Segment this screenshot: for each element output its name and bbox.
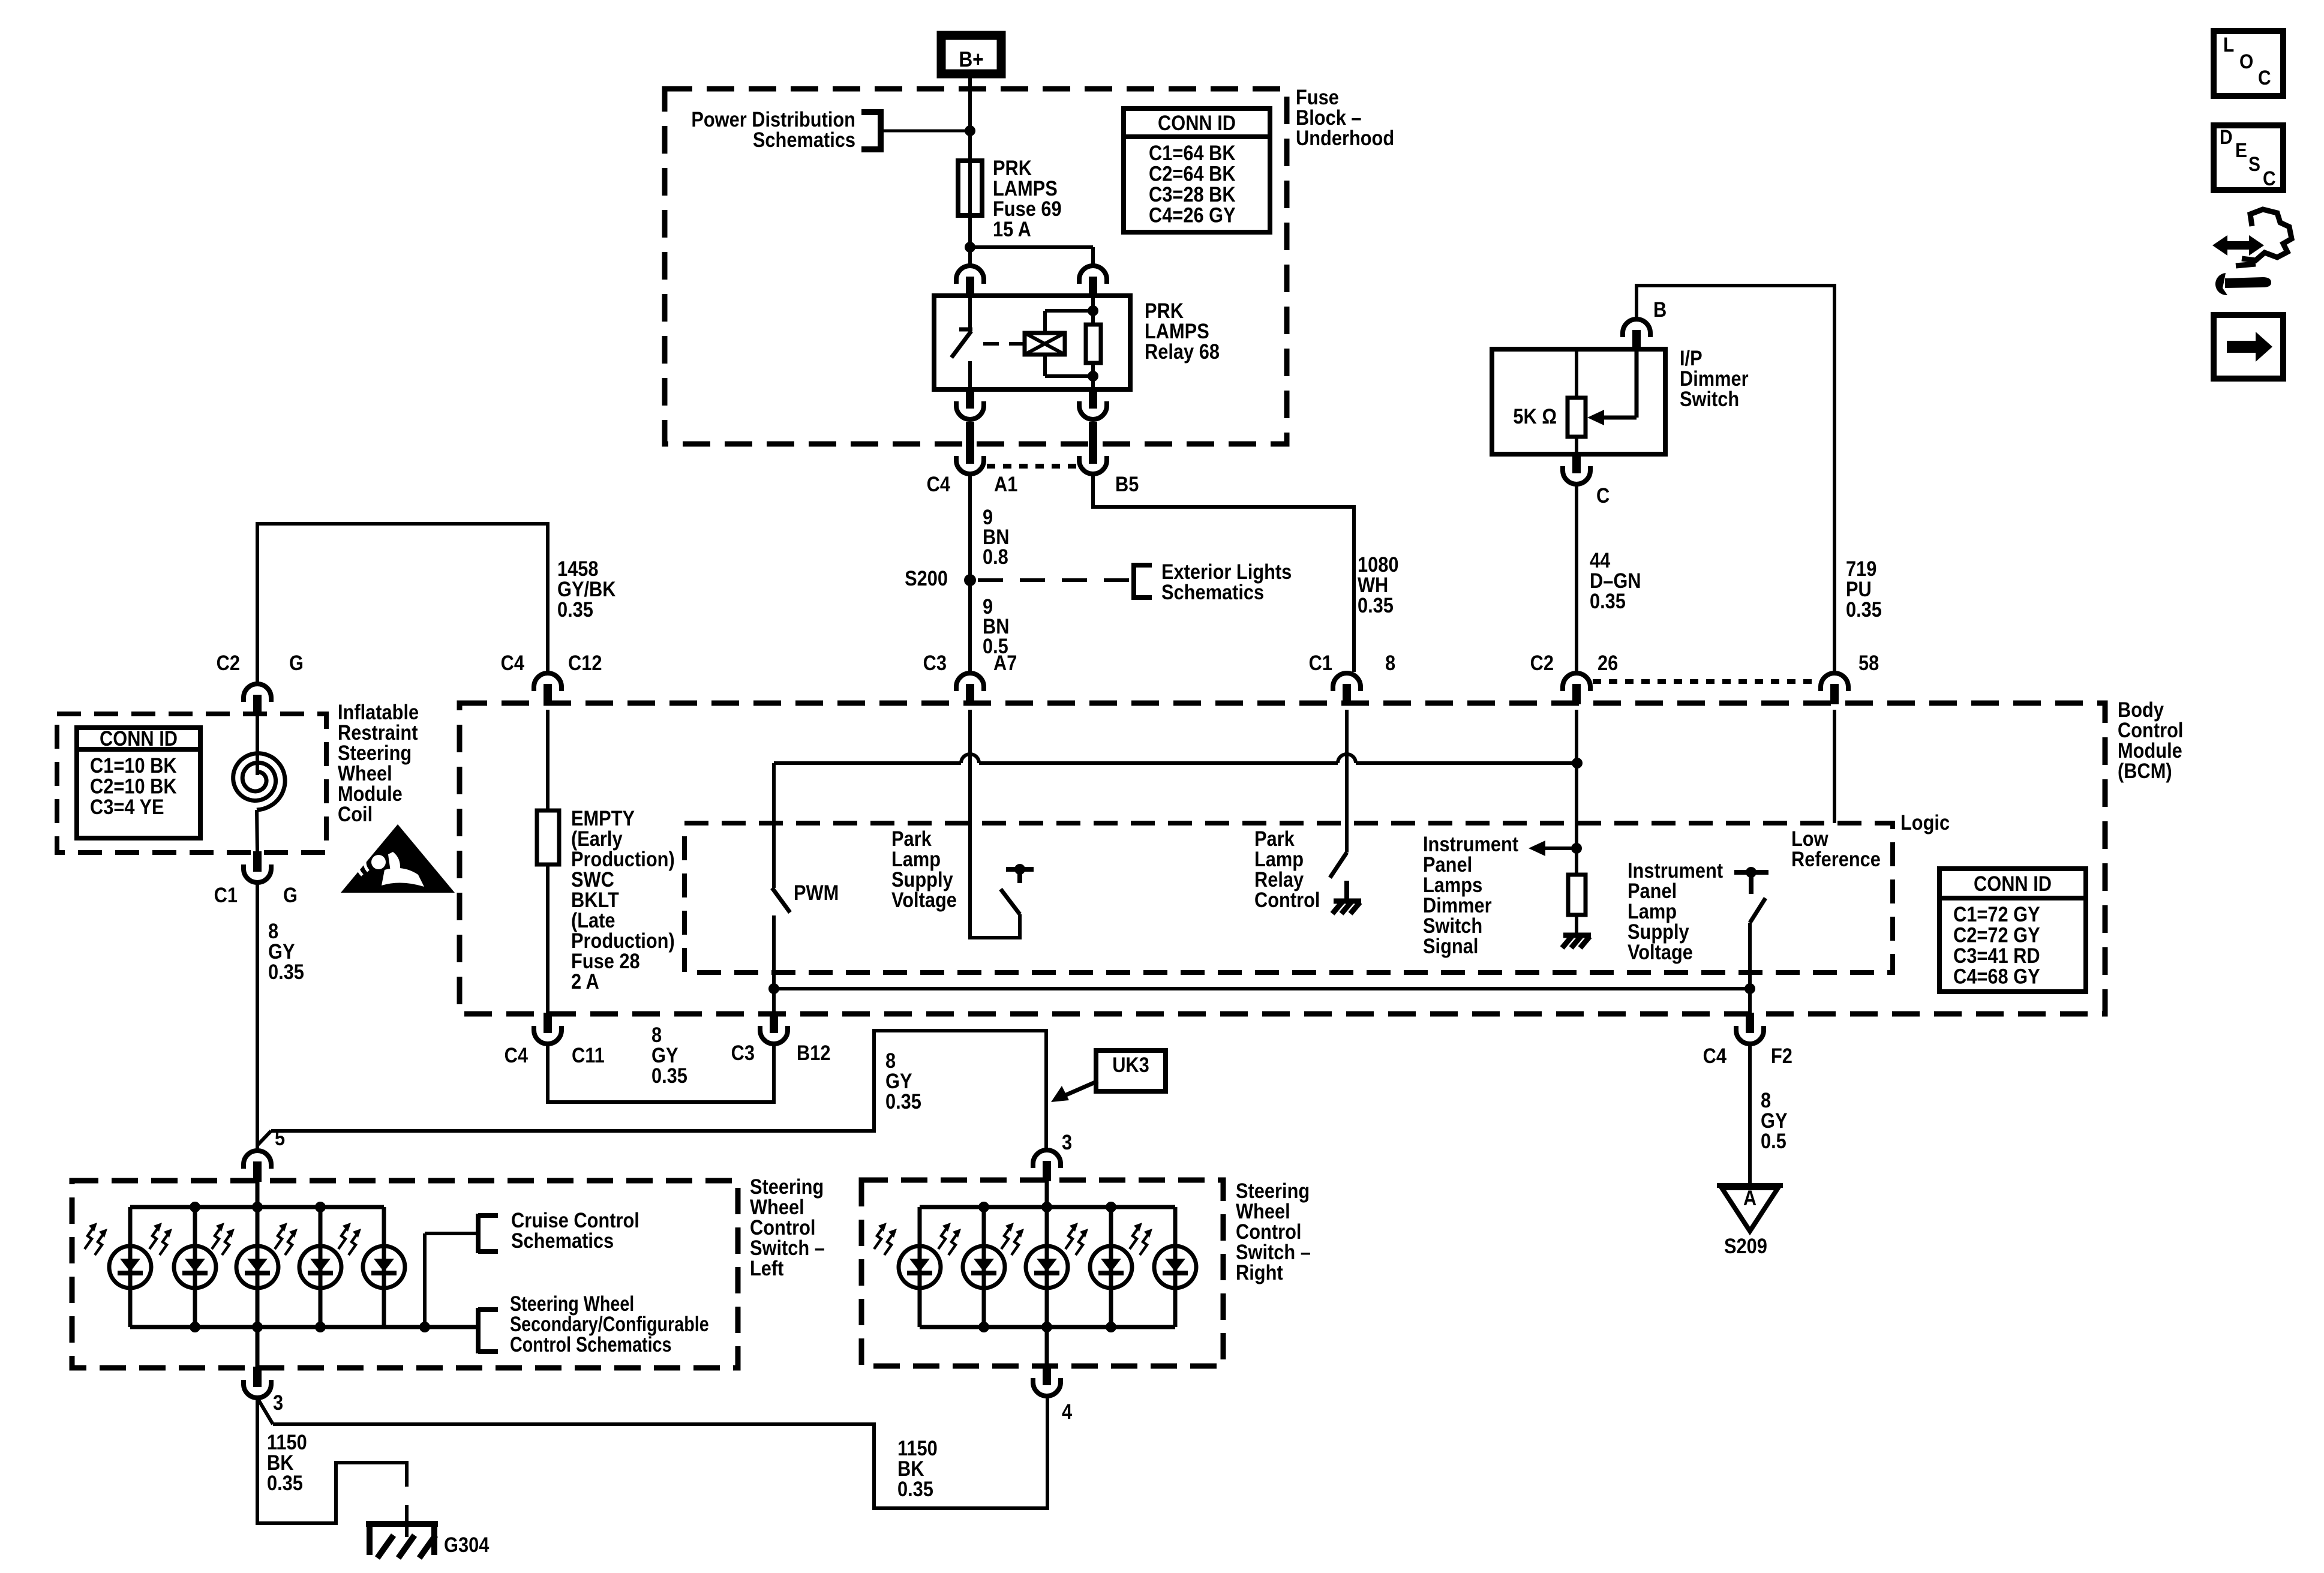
- pin label 26: [1598, 651, 1618, 674]
- label EMPTY SWC BKLT Fuse 28 2A: [571, 806, 675, 993]
- connector C3 A7 BCM: [956, 673, 984, 704]
- svg-text:C4=26 GY: C4=26 GY: [1149, 203, 1236, 227]
- dotted connector tie C2-58: [1593, 679, 1818, 684]
- junction node dimmer arrow: [1571, 843, 1582, 854]
- svg-text:26: 26: [1598, 651, 1618, 674]
- wire fuse 69 to relay switch pin: [968, 247, 972, 266]
- pin label 4: [1062, 1400, 1073, 1423]
- bracket Cruise Control Schematics: [478, 1208, 639, 1253]
- left switch dashed box: [72, 1181, 738, 1368]
- pin label A7: [993, 651, 1017, 674]
- wire bcm internal bus upper: [774, 754, 1577, 763]
- svg-text:G304: G304: [444, 1533, 490, 1556]
- junction nodes left switch buses: [190, 1202, 430, 1332]
- svg-text:8: 8: [1385, 651, 1395, 674]
- svg-text:0.35: 0.35: [651, 1064, 687, 1087]
- ground internal dimmer signal: [1562, 935, 1591, 948]
- svg-text:F2: F2: [1771, 1044, 1792, 1067]
- svg-text:0.35: 0.35: [268, 960, 304, 983]
- svg-text:Left: Left: [750, 1256, 783, 1280]
- label 9 BN 0.8: [983, 505, 1009, 568]
- label Body Control Module BCM: [2118, 698, 2183, 782]
- signal direction arrow: [1529, 840, 1577, 856]
- conn id table coil: [77, 727, 200, 838]
- junction node bus to dimmer signal: [1572, 758, 1583, 769]
- svg-text:B5: B5: [1115, 472, 1139, 496]
- svg-text:B: B: [1653, 298, 1667, 321]
- pin label C11: [572, 1043, 605, 1067]
- label 1150 BK 0.35 right: [897, 1436, 938, 1500]
- pin label C4 c11: [505, 1043, 529, 1067]
- wire fuse 69 to relay coil pin: [970, 247, 1093, 266]
- splice pack S209 triangle: [1717, 1185, 1783, 1231]
- svg-text:C2: C2: [1530, 651, 1554, 674]
- dotted connector tie C4A1-B5: [987, 464, 1077, 469]
- pin label 5: [275, 1126, 285, 1149]
- svg-text:0.5: 0.5: [1761, 1129, 1786, 1152]
- svg-text:L: L: [2223, 33, 2234, 56]
- label Logic: [1900, 810, 1950, 834]
- connector B dimmer switch: [1623, 319, 1650, 350]
- junction node pwm output: [768, 983, 779, 994]
- pin label G coil top: [289, 651, 304, 674]
- svg-text:0.35: 0.35: [1358, 593, 1394, 617]
- svg-text:B12: B12: [797, 1041, 830, 1064]
- svg-text:C2: C2: [217, 651, 240, 674]
- relay coil bottom wire: [1045, 355, 1093, 376]
- pin label C4 f2: [1703, 1044, 1727, 1067]
- wire F2 internal: [1748, 923, 1752, 1014]
- dimmer wiper arrow: [1587, 349, 1637, 425]
- coil inductive spiral: [233, 714, 285, 852]
- bracket Exterior Lights Schematics: [1134, 560, 1292, 604]
- wire 9 BN A1 to S200: [968, 475, 972, 580]
- wire 8 GY 0.5 F2 to S209: [1748, 1045, 1752, 1185]
- pin label C4 c12: [501, 651, 525, 674]
- svg-text:D: D: [2220, 125, 2233, 148]
- relay switch contact: [959, 296, 972, 329]
- UK3 pointer arrow: [1051, 1081, 1098, 1102]
- svg-text:A1: A1: [994, 472, 1017, 496]
- svg-text:G: G: [289, 651, 304, 674]
- svg-text:C: C: [2263, 167, 2276, 190]
- svg-text:Schematics: Schematics: [753, 128, 855, 151]
- body control module dashed box: [460, 703, 2105, 1014]
- ground internal relay control: [1332, 901, 1361, 914]
- wire 1150 BK right switch pin4 to pin3 left: [273, 1398, 1047, 1508]
- pin label 3 left: [273, 1391, 283, 1414]
- wire 9 BN S200 to A7: [968, 580, 972, 672]
- label G304: [444, 1533, 490, 1556]
- svg-text:C4: C4: [927, 472, 951, 496]
- svg-text:C4: C4: [505, 1043, 529, 1067]
- wire bcm internal bus lower: [774, 987, 1750, 990]
- svg-text:5: 5: [275, 1126, 285, 1149]
- relay resistor: [1086, 311, 1101, 376]
- relay PRK LAMPS Relay 68 box: [934, 296, 1130, 389]
- svg-text:E: E: [2235, 139, 2247, 161]
- pin label C2 coil: [217, 651, 240, 674]
- svg-text:C2=64 BK: C2=64 BK: [1149, 162, 1236, 185]
- wire 8 GY C11 to B12: [548, 1045, 774, 1102]
- connector C2 G coil: [244, 684, 271, 715]
- icon LOC box: [2214, 31, 2283, 96]
- svg-text:C1=64 BK: C1=64 BK: [1149, 141, 1236, 164]
- connector C3 B12 BCM: [760, 1013, 788, 1044]
- svg-text:Reference: Reference: [1791, 847, 1881, 870]
- LEDs left switch (5 backlight diodes): [85, 1223, 405, 1288]
- label Fuse Block - Underhood: [1296, 85, 1394, 149]
- bracket Power Distribution Schematics: [691, 107, 881, 152]
- svg-text:58: 58: [1858, 651, 1879, 674]
- label 5K ohm: [1513, 404, 1557, 428]
- label Park Lamp Supply Voltage: [891, 827, 957, 911]
- svg-text:Schematics: Schematics: [511, 1229, 614, 1252]
- pin label B12: [797, 1041, 830, 1064]
- svg-text:C4=68 GY: C4=68 GY: [1953, 965, 2040, 988]
- svg-text:S200: S200: [905, 566, 948, 590]
- label 719 PU 0.35: [1846, 557, 1882, 621]
- LEDs right switch (5 backlight diodes): [874, 1223, 1196, 1288]
- switch park lamp supply blade: [1001, 889, 1020, 914]
- icon DESC box: [2214, 125, 2283, 190]
- svg-text:PWM: PWM: [794, 881, 839, 904]
- dashed wire S200 to exterior lights: [978, 578, 1131, 582]
- svg-text:C: C: [2258, 66, 2271, 89]
- connector C2 26 BCM: [1563, 673, 1590, 704]
- label I/P Dimmer Switch: [1680, 346, 1749, 410]
- label Instrument Panel Lamps Dimmer Switch Signal: [1423, 832, 1518, 957]
- wire 719 PU dimmer B to BCM 58: [1637, 286, 1834, 672]
- label 44 D-GN 0.35: [1590, 548, 1641, 613]
- svg-text:0.35: 0.35: [557, 598, 593, 621]
- icon navigate wrench: [2212, 209, 2292, 295]
- switch park lamp supply fixed contact: [1006, 864, 1034, 883]
- svg-text:CONN ID: CONN ID: [1974, 872, 2052, 895]
- connector C4 F2 BCM: [1736, 1013, 1764, 1044]
- junction nodes right switch buses: [978, 1202, 1116, 1332]
- pin label C3 b12: [731, 1041, 755, 1064]
- wire power distribution tap: [882, 130, 968, 133]
- fuse block - underhood dashed box: [665, 89, 1287, 444]
- svg-text:Underhood: Underhood: [1296, 126, 1394, 149]
- svg-text:Logic: Logic: [1900, 810, 1950, 834]
- svg-text:S: S: [2248, 152, 2260, 175]
- label PRK LAMPS Relay 68: [1145, 299, 1220, 363]
- pin label C1: [1309, 651, 1332, 674]
- bracket Steering Wheel Secondary: [478, 1292, 709, 1356]
- connector pin 4 right switch: [1033, 1365, 1061, 1396]
- label S209: [1724, 1234, 1767, 1257]
- svg-text:C3=41 RD: C3=41 RD: [1953, 944, 2040, 967]
- coil module dashed box: [57, 714, 326, 852]
- option code UK3 box: [1096, 1050, 1166, 1091]
- pin label C1 coil: [214, 883, 238, 906]
- svg-text:B+: B+: [959, 47, 983, 71]
- label 8 GY 0.35 coil: [268, 919, 304, 983]
- pin label C: [1596, 484, 1610, 507]
- wire ground stem segment: [405, 1505, 409, 1537]
- svg-text:(BCM): (BCM): [2118, 759, 2172, 782]
- label 8 GY 0.5: [1761, 1088, 1788, 1152]
- airbag warning triangle: [341, 824, 455, 893]
- svg-text:C4: C4: [501, 651, 525, 674]
- svg-text:G: G: [283, 883, 298, 906]
- connector C4 A1 fuse block: [956, 443, 984, 474]
- wire 1080 WH B5 to BCM C1-8: [1093, 475, 1354, 672]
- svg-text:Control: Control: [1254, 888, 1320, 911]
- ground G304: [366, 1524, 438, 1558]
- wire low reference internal: [1833, 710, 1836, 823]
- svg-text:C: C: [1596, 484, 1610, 507]
- icon forward arrow box: [2214, 315, 2283, 379]
- wire main through left switch: [256, 1182, 260, 1367]
- svg-text:A: A: [1743, 1186, 1756, 1209]
- svg-text:S209: S209: [1724, 1234, 1767, 1257]
- label S200: [905, 566, 948, 590]
- relay switch lower stub: [968, 361, 972, 389]
- connector C1 G coil: [244, 851, 271, 882]
- wire relay control internal: [1345, 710, 1349, 852]
- svg-text:0.35: 0.35: [1590, 589, 1626, 613]
- left switch bus wires: [130, 1207, 476, 1327]
- wire cruise control tap: [425, 1233, 476, 1327]
- label 1458 GY/BK 0.35: [557, 557, 616, 621]
- pin label C2: [1530, 651, 1554, 674]
- svg-text:4: 4: [1062, 1400, 1073, 1423]
- connector C4 C11 BCM: [534, 1013, 562, 1044]
- connector 58 BCM: [1821, 673, 1848, 704]
- switch park lamp relay control blade: [1330, 852, 1347, 878]
- relay node coil-resistor bottom: [1088, 371, 1098, 382]
- wire diagonal out of pin3: [258, 1399, 273, 1424]
- label PRK LAMPS Fuse 69 15 A: [993, 156, 1062, 241]
- pin label 3 right: [1062, 1130, 1072, 1154]
- svg-text:0.35: 0.35: [1846, 598, 1882, 621]
- label Steering Wheel Control Switch Right: [1236, 1179, 1311, 1284]
- svg-text:CONN ID: CONN ID: [1158, 111, 1236, 134]
- svg-text:C4: C4: [1703, 1044, 1727, 1067]
- svg-text:Control Schematics: Control Schematics: [510, 1332, 671, 1356]
- wire resistor to ground: [1575, 915, 1578, 935]
- relay actuation dashed link: [983, 342, 1023, 346]
- svg-text:C1: C1: [214, 883, 238, 906]
- svg-text:15 A: 15 A: [993, 217, 1031, 241]
- relay switch blade: [951, 331, 971, 358]
- svg-text:Right: Right: [1236, 1260, 1283, 1284]
- label Steering Wheel Control Switch Left: [750, 1175, 825, 1280]
- label 8 GY 0.35 c11: [651, 1023, 687, 1087]
- svg-text:C11: C11: [572, 1043, 605, 1067]
- svg-text:C1=72 GY: C1=72 GY: [1953, 902, 2040, 926]
- svg-text:C1: C1: [1309, 651, 1332, 674]
- connector relay switch pin bottom: [956, 388, 984, 464]
- label Low Reference: [1791, 827, 1881, 870]
- splice node S200: [964, 574, 976, 586]
- connector pin 3 right switch: [1033, 1150, 1061, 1181]
- wire 8 GY coil C1G down to switch pin5: [256, 884, 259, 1149]
- pin label G coil bottom: [283, 883, 298, 906]
- svg-text:C12: C12: [568, 651, 602, 674]
- svg-text:C3=4 YE: C3=4 YE: [90, 795, 164, 818]
- right switch bus wires: [920, 1207, 1175, 1327]
- svg-text:C3: C3: [923, 651, 947, 674]
- conn id table BCM: [1939, 869, 2086, 992]
- fuse PRK LAMPS Fuse 69 15A: [958, 161, 982, 247]
- label Inflatable Restraint Steering Wheel Module Coil: [338, 700, 419, 825]
- wire 1458 GY/BK coil C2G to BCM C4C12: [257, 524, 548, 683]
- svg-text:O: O: [2239, 50, 2253, 73]
- svg-text:Voltage: Voltage: [1628, 940, 1693, 963]
- svg-text:Signal: Signal: [1423, 934, 1478, 957]
- switch ip lamp supply fixed contact: [1734, 867, 1768, 894]
- label Instrument Panel Lamp Supply Voltage: [1628, 858, 1723, 963]
- pin label C4: [927, 472, 951, 496]
- svg-text:CONN ID: CONN ID: [100, 727, 178, 750]
- wire 44 D-GN dimmer C to BCM C2-26: [1575, 485, 1578, 672]
- svg-text:C2=10 BK: C2=10 BK: [90, 775, 177, 798]
- svg-text:Schematics: Schematics: [1161, 580, 1264, 604]
- pin label C3: [923, 651, 947, 674]
- switch PWM: [772, 763, 790, 1014]
- pin label 58: [1858, 651, 1879, 674]
- pin label B5: [1115, 472, 1139, 496]
- junction node below fuse 69: [965, 242, 975, 253]
- label 9 BN 0.5: [983, 595, 1009, 658]
- relay coil top wire: [1045, 311, 1093, 333]
- wire main through right switch: [1045, 1181, 1049, 1366]
- ip dimmer switch box: [1492, 349, 1665, 454]
- label PWM: [794, 881, 839, 904]
- wire 8 GY pin5 to pin3: [271, 1031, 1046, 1149]
- pin label A1: [994, 472, 1017, 496]
- svg-text:0.8: 0.8: [983, 545, 1008, 568]
- svg-text:A7: A7: [993, 651, 1017, 674]
- potentiometer 5K dimmer: [1568, 349, 1586, 454]
- resistor dimmer signal: [1568, 875, 1586, 915]
- pin label F2: [1771, 1044, 1792, 1067]
- pin label 8: [1385, 651, 1395, 674]
- relay coil pin wire: [1091, 296, 1095, 389]
- svg-text:C3: C3: [731, 1041, 755, 1064]
- junction node on B+ feed: [965, 125, 975, 136]
- connector C1 8 BCM: [1333, 673, 1361, 704]
- connector pin 5 left switch: [244, 1151, 271, 1182]
- connector relay coil pin top: [1079, 266, 1107, 297]
- relay coil element: [1025, 333, 1065, 355]
- label 8 GY 0.35 uk3: [885, 1049, 921, 1113]
- junction node lamp supply: [1744, 983, 1755, 994]
- svg-text:Switch: Switch: [1680, 387, 1739, 410]
- svg-text:2 A: 2 A: [571, 969, 599, 993]
- fuse SWC BKLT Fuse 28 2A: [537, 710, 559, 1014]
- label 1150 BK 0.35 left: [267, 1430, 307, 1494]
- connector relay coil pin bottom: [1079, 388, 1107, 464]
- svg-text:Coil: Coil: [338, 802, 373, 825]
- svg-text:3: 3: [273, 1391, 283, 1414]
- connector pin 3 left switch: [244, 1367, 271, 1398]
- conn id table fuse block: [1124, 109, 1270, 232]
- svg-text:C1=10 BK: C1=10 BK: [90, 754, 177, 777]
- right switch dashed box: [861, 1180, 1223, 1366]
- wire B+ to fuse 69: [968, 78, 972, 162]
- connector B5 fuse block: [1079, 443, 1107, 474]
- wire A7 internal: [970, 710, 1020, 938]
- svg-text:3: 3: [1062, 1130, 1072, 1154]
- svg-text:0.35: 0.35: [885, 1089, 921, 1113]
- wire dimmer signal internal: [1575, 710, 1578, 875]
- svg-text:C3=28 BK: C3=28 BK: [1149, 182, 1236, 206]
- power symbol B+ box: [941, 35, 1001, 74]
- svg-text:5K Ω: 5K Ω: [1513, 404, 1557, 428]
- connector C4 C12 BCM: [534, 673, 562, 704]
- relay node coil-resistor top: [1088, 305, 1098, 316]
- svg-text:Relay 68: Relay 68: [1145, 340, 1220, 363]
- logic dashed box: [684, 823, 1893, 972]
- label Park Lamp Relay Control: [1254, 827, 1320, 911]
- svg-text:UK3: UK3: [1112, 1053, 1149, 1076]
- svg-text:0.35: 0.35: [897, 1477, 933, 1500]
- switch ip lamp supply blade: [1750, 898, 1765, 923]
- connector C dimmer switch: [1563, 453, 1590, 484]
- svg-text:Voltage: Voltage: [891, 888, 957, 911]
- wire 1150 BK left to G304: [257, 1399, 407, 1523]
- connector relay switch pin top: [956, 266, 984, 297]
- wire diagonal into pin5: [258, 1131, 271, 1145]
- pin label B: [1653, 298, 1667, 321]
- svg-text:0.35: 0.35: [267, 1471, 303, 1494]
- pin label C12: [568, 651, 602, 674]
- svg-text:C2=72 GY: C2=72 GY: [1953, 923, 2040, 947]
- label 1080 WH 0.35: [1358, 553, 1398, 617]
- switch park lamp relay control fixed: [1344, 881, 1349, 901]
